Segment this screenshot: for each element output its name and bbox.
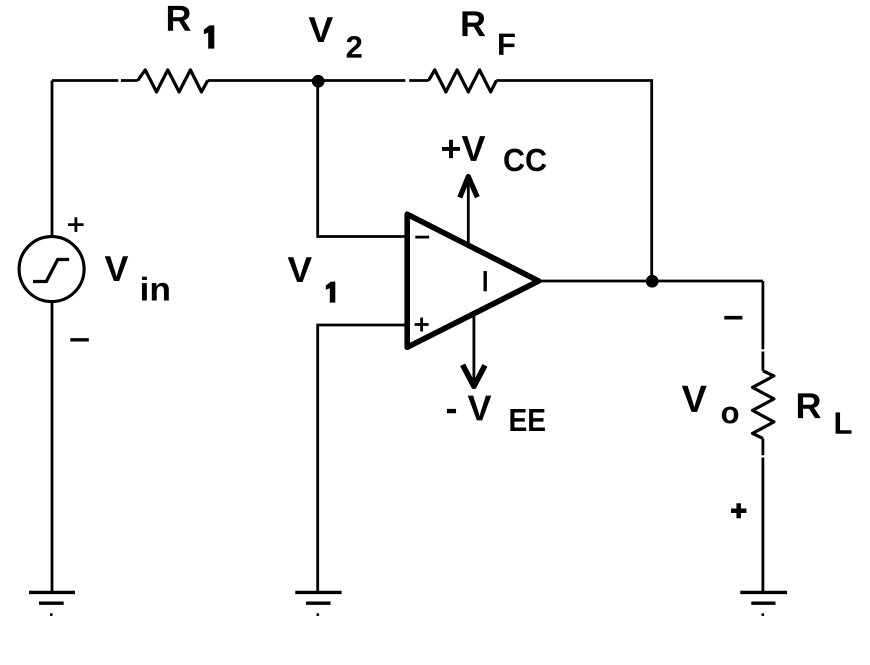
- -VEE supply arrow: [463, 311, 485, 386]
- wire RL to right ground: [762, 439, 765, 592]
- label Vo: [682, 386, 738, 424]
- wire non-inverting input left and down to middle ground: [318, 325, 406, 592]
- resistor R1: [138, 70, 208, 92]
- label minus above Vo: [724, 316, 742, 320]
- output node junction dot: [646, 275, 659, 288]
- wire node V2 down and right to inverting input: [318, 81, 406, 237]
- wire top-left horizontal from source to R1: [52, 79, 138, 82]
- op-amp internal output bar: [484, 271, 487, 291]
- label -VEE: [447, 396, 545, 431]
- label V1: [288, 257, 336, 302]
- ground right: [740, 592, 787, 615]
- op-amp U1 triangle: [407, 214, 538, 347]
- resistor RF: [429, 70, 497, 92]
- node V2 junction dot: [312, 75, 325, 88]
- label +VCC: [442, 136, 546, 171]
- ground left: [29, 592, 75, 615]
- ground middle: [295, 592, 341, 615]
- label V2: [309, 17, 362, 57]
- wire RF to top-right corner and down to output node: [496, 81, 651, 282]
- wire R1 to node V2: [208, 79, 318, 82]
- label RL: [798, 393, 852, 433]
- source waveform symbol: [33, 260, 69, 282]
- wire output corner down to RL: [762, 281, 765, 371]
- label minus at source: [70, 338, 89, 341]
- wire source top: left vertical down to source: [51, 81, 54, 238]
- wire op-amp output to load: [539, 280, 763, 283]
- source Vin circle: [19, 237, 84, 302]
- label plus below Vo: [731, 503, 746, 518]
- label R1: [168, 6, 214, 49]
- wire source bottom to left ground: [51, 302, 54, 592]
- op-amp non-inverting input plus symbol: [415, 318, 429, 332]
- +VCC supply arrow: [460, 177, 478, 248]
- resistor RL: [753, 371, 774, 439]
- wire node V2 to RF: [318, 79, 429, 82]
- op-amp inverting input minus symbol: [415, 236, 429, 239]
- label plus at source: [68, 217, 84, 232]
- label Vin: [105, 256, 169, 300]
- label RF: [462, 11, 514, 55]
